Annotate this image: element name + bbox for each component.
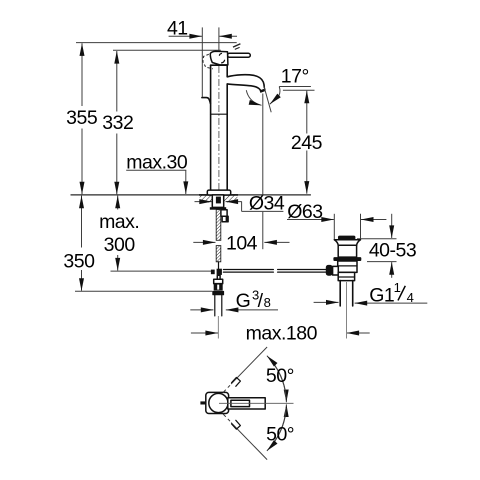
svg-text:G: G (236, 290, 251, 312)
extension line spout outlet vertical (262, 94, 264, 195)
mounting bracket step 1 (221, 210, 227, 217)
svg-text:50°: 50° (266, 423, 294, 445)
spout top outline (227, 75, 264, 88)
svg-text:332: 332 (102, 112, 133, 134)
handle base (210, 51, 228, 65)
svg-text:Ø34: Ø34 (249, 192, 285, 214)
mounting flange plate (210, 207, 226, 210)
drain flange trumpet (334, 240, 360, 246)
extension line handle-open left edge (201, 27, 203, 97)
dimension G3/8 (190, 309, 213, 311)
svg-text:4: 4 (407, 290, 414, 305)
faucet body top line (211, 64, 228, 66)
faucet body right edge lower (226, 84, 228, 190)
extension line 355 top (76, 42, 237, 44)
countertop surface line (71, 194, 311, 196)
drain seal ring (333, 257, 361, 261)
hose adapter (214, 279, 223, 283)
threaded pull rod lower (216, 246, 221, 262)
svg-text:8: 8 (264, 295, 271, 310)
angle 17 arc arrow (246, 90, 261, 105)
handle raised dashes (233, 44, 240, 47)
plan view body circle (209, 393, 228, 412)
extension line 17 deg (279, 86, 311, 88)
extension line faucet centerline top (218, 27, 220, 51)
drain ball knob (326, 265, 333, 276)
spout outlet aerator (260, 90, 265, 92)
dimension 41 left arrow (169, 35, 202, 37)
plan view square base (206, 392, 229, 413)
extension line spout outlet level (283, 89, 315, 91)
hose tube (214, 295, 216, 316)
dimension diam34 right arrow (226, 201, 242, 203)
angle arc top (271, 360, 287, 403)
diam34 leader (241, 202, 243, 212)
svg-text:50°: 50° (266, 365, 294, 387)
drain lower body (338, 261, 357, 272)
faucet body left edge (210, 65, 212, 190)
faucet body right edge upper (226, 65, 228, 76)
svg-text:G1: G1 (369, 285, 394, 307)
drain plug cap (338, 236, 355, 240)
svg-text:40-53: 40-53 (369, 240, 416, 262)
plan handle outline bottom (232, 420, 241, 429)
dimension max.180 (191, 332, 218, 334)
dimension G1 1/4 (314, 301, 339, 303)
rod below joint (217, 275, 220, 279)
plan view lever stub (200, 401, 205, 404)
extension line hose end level (75, 290, 212, 292)
svg-text:300: 300 (104, 234, 136, 256)
mounting shaft below counter (212, 195, 223, 208)
drain rod segment 2 (278, 269, 326, 271)
centerline faucet body (218, 66, 220, 190)
dimension 104 (193, 241, 215, 243)
dimension 41 right arrow (219, 35, 237, 37)
threaded pull rod upper (216, 210, 221, 241)
drain tailpipe (339, 281, 341, 306)
handle open position dashed outline (203, 54, 213, 69)
faucet body joint line (211, 113, 228, 115)
drain knob connector (333, 266, 339, 275)
svg-text:17°: 17° (281, 66, 309, 88)
svg-text:max.: max. (99, 211, 139, 233)
drain nut (338, 272, 354, 280)
ball joint faucet side (217, 269, 222, 275)
drain rod segment 1 (223, 269, 273, 271)
svg-text:104: 104 (226, 232, 258, 254)
plan view spout (228, 398, 265, 409)
pull rod link (218, 262, 220, 269)
spout bottom outline (227, 84, 260, 90)
angle 17 right arrow leader (270, 87, 280, 105)
hose nut upper (214, 284, 223, 291)
svg-text:max.180: max.180 (246, 323, 318, 345)
dimension diam34 left arrow (195, 201, 212, 203)
svg-text:1: 1 (394, 280, 401, 295)
svg-text:350: 350 (63, 250, 95, 272)
handle base inner curves (219, 53, 221, 55)
countertop hatch left (200, 196, 213, 203)
hose nut G38 (212, 291, 224, 295)
faucet lower centerline (217, 316, 219, 339)
plan ray bottom (231, 423, 267, 460)
drain extension line left (333, 214, 335, 240)
drain flange body (338, 245, 356, 257)
handle lever bar (227, 53, 250, 57)
countertop hatch right (224, 196, 238, 203)
svg-text:355: 355 (66, 107, 98, 129)
angle arc bottom (271, 404, 287, 447)
mounting bracket step 2 (222, 216, 228, 222)
extension line rod level (111, 270, 212, 272)
drain extension line right (360, 214, 362, 240)
plan view centerline (219, 402, 294, 404)
extension line 332 top (113, 49, 221, 51)
faucet base escutcheon (207, 190, 230, 195)
plan view lever (231, 400, 250, 406)
drain centerline (346, 282, 348, 339)
outlet slant line (264, 87, 271, 113)
plan handle outline top (232, 377, 241, 386)
plan ray top (231, 347, 267, 384)
dimension 40-53 (391, 214, 393, 238)
faucet body hook (202, 98, 211, 104)
